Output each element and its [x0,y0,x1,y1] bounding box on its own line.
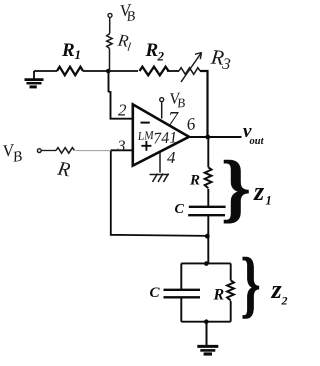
ground (bottom) [197,346,218,354]
node feedback junction [205,234,210,239]
svg-text:}: } [221,146,251,230]
resistor R3 (variable, with arrow) [179,68,200,75]
svg-text:R: R [189,173,200,189]
svg-text:R: R [213,287,225,304]
svg-text:741: 741 [153,129,178,147]
wire R to C (Z1) [207,189,209,206]
resistor Rl (lamp, vertical squiggle) [107,34,112,49]
pin 4 wire [159,153,161,173]
node Z2 bottom [204,319,209,324]
resistor R (Z2) [227,280,234,300]
svg-text:2: 2 [157,49,165,64]
svg-text:1: 1 [266,194,272,208]
wire output node down to resistor R of Z1 [207,137,209,167]
svg-text:R: R [61,40,75,61]
ground (top-left) [25,71,44,87]
wire Z2 left branch upper [180,263,182,289]
ground (pin 4, hatched) [150,174,170,183]
node Z2 top [204,261,209,266]
wire output [189,136,242,138]
wire Z2 box top rail [181,262,230,264]
wire node A down to pin 2 [109,72,133,119]
wire node A up to lamp resistor [109,49,111,72]
svg-text:R: R [145,40,159,61]
plus sign (non-inverting input) [141,141,151,151]
wire Z2 right branch upper [230,263,232,280]
wire feedback: pin3 junction down and right [111,151,208,236]
resistor R (input squiggle) [56,148,74,154]
wire R3 to corner, right rail down to output node [200,71,208,137]
wire R1 to node A [83,70,138,72]
wire Z2 left branch lower [180,298,182,322]
wire Z2 box bottom rail [181,321,230,323]
wire pin 3 [111,149,133,151]
wire pin 7 [161,102,163,119]
wire R2 to R3 [167,70,179,72]
wire squiggle to VB terminal [109,18,111,34]
svg-text:7: 7 [168,108,179,130]
svg-text:C: C [150,285,161,301]
svg-text:2: 2 [118,101,127,120]
wire Z2 right branch lower [230,301,232,322]
terminal VB (left) [37,149,41,153]
capacitor C (Z1) [188,207,225,215]
wire ground to R1 [34,70,57,72]
wire terminal to R [41,150,56,152]
svg-text:out: out [250,136,265,147]
op-amp U1 (triangle) [133,104,189,165]
svg-text:1: 1 [75,47,82,62]
node A (junction dot) [106,69,111,74]
capacitor C (Z2) [164,290,201,298]
svg-text:}: } [241,244,261,326]
svg-text:3: 3 [117,138,126,155]
svg-text:C: C [175,202,185,217]
wire C down to feedback junction [207,216,209,264]
wire input (faint) [76,150,111,152]
svg-text:3: 3 [221,55,232,73]
output node [205,135,210,140]
svg-text:z: z [253,177,265,206]
resistor R2 [140,67,169,76]
wire Z2 bottom to ground [206,322,208,346]
minus sign (inverting input) [141,122,150,124]
terminal VB (top) [108,13,112,17]
resistor R1 [57,67,83,75]
svg-text:4: 4 [167,148,176,167]
resistor R (Z1) [205,167,212,188]
svg-text:2: 2 [281,294,288,308]
pin 7 terminal VB [160,98,164,102]
